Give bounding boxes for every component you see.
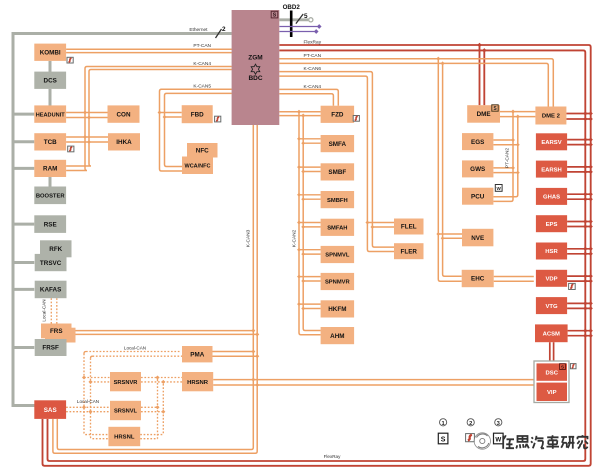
svg-text:SRSNVR: SRSNVR [114,380,138,386]
GWS [462,160,493,177]
icon book VDP [569,283,576,289]
wire gray stub FRSF [13,346,34,349]
svg-text:FLER: FLER [401,248,418,255]
icon W on PCU [495,185,502,192]
wire K-CAN6: ZGM right then down to FLEL FLER [279,72,394,248]
wire DME to DME2 [500,111,535,113]
FBD [182,105,213,123]
wire Local-CAN dashed SRSNVR right to HRSNR [141,378,163,384]
svg-text:KOMBI: KOMBI [40,49,61,56]
svg-text:S: S [273,13,277,19]
svg-text:NVE: NVE [471,235,484,242]
wire FlexRay stubs EPS [567,221,591,223]
svg-text:RAM: RAM [43,166,57,173]
svg-text:S: S [441,437,446,444]
svg-text:K-CAN5: K-CAN5 [193,83,211,89]
svg-text:2: 2 [222,26,226,33]
wire K-CAN2 stubs SMFAH [299,222,321,224]
svg-text:TCB: TCB [44,139,57,146]
svg-text:FLEL: FLEL [401,224,417,231]
wire PMA to K-CAN3 [212,351,253,353]
wire K-CAN2 stubs SMBFH [299,194,321,196]
icon S on DME [492,105,498,112]
svg-text:RSE: RSE [44,221,57,228]
wire HRSNR to DSC/VIP [213,379,534,381]
wire FlexRay stubs EARSV [567,139,591,141]
svg-text:FlexRay: FlexRay [304,39,322,45]
RSE [34,215,66,233]
HEADUNIT [34,105,66,122]
wire gray stub HEADUNIT [13,113,34,116]
legend icon book [466,434,475,442]
SAS [34,400,66,419]
SMFA [321,135,355,152]
WCA/NFC [182,157,213,175]
svg-text:PT-CAN: PT-CAN [304,53,322,59]
svg-text:Ethernet: Ethernet [189,27,208,33]
ACSM [535,324,568,342]
wire FlexRay stubs GHAS [567,193,591,195]
svg-text:HKFM: HKFM [328,306,346,313]
AHM [321,327,355,344]
svg-text:EARSH: EARSH [541,167,562,173]
OBD2 black bar [290,11,293,38]
gray slash mark and 5 [296,14,303,24]
svg-text:FRSF: FRSF [42,345,59,352]
svg-text:GHAS: GHAS [543,195,560,201]
svg-text:VIP: VIP [547,390,557,396]
wire EHC to VDP [494,276,534,278]
DCS [34,72,66,89]
SPNMVL [321,246,355,263]
SPNMVR [321,273,355,290]
HKFM [321,300,355,317]
EHC [462,270,494,287]
VIP [537,383,568,401]
svg-text:VTG: VTG [545,304,558,310]
wire FlexRay stubs ACSM [568,330,591,332]
svg-text:HSR: HSR [545,249,558,255]
wire gray KOMBI-DCS [49,61,52,73]
wire Local-CAN dashed stubs SRSNVR left [84,377,110,379]
svg-text:AHM: AHM [330,333,344,340]
wire PT-CAN left: ZGM to KOMBI [66,48,232,50]
DSC [537,363,568,380]
FLER [394,243,424,259]
wire FlexRay stubs EARSH [567,166,591,168]
svg-text:DSC: DSC [546,370,559,376]
PMA [182,346,213,362]
wire PT-CAN2 verticals down to PCU [493,112,513,202]
EGS [462,133,493,150]
svg-text:2: 2 [469,421,472,427]
HSR [536,243,567,260]
icon book FZD [353,116,359,122]
wire Local-CAN dashed right verticals of SRS cluster [158,380,164,439]
CON [108,105,140,122]
svg-text:DCS: DCS [44,77,57,84]
EARSH [536,161,567,178]
legend circle 1 [440,419,447,427]
FLEL [394,219,424,235]
svg-text:SAS: SAS [44,407,57,414]
wire K-CAN4 right: ZGM to FZD top [279,89,338,105]
icon book FBD [215,116,221,122]
svg-text:K-CAN6: K-CAN6 [304,66,322,72]
wire K-CAN2 stubs SPNMVL [299,249,321,251]
wire Ethernet gray trunk: ZGM left to frame, down left side, into SAS [13,34,232,406]
icon S on ZGM [271,11,278,18]
wire gray stub TRSVC [13,261,34,264]
wire PT-CAN right: ZGM to DME2 top [279,59,553,107]
wire gray stub KAFAS [13,288,34,291]
svg-text:HEADUNIT: HEADUNIT [36,112,65,118]
wire PT-CAN branch down to NVE and EHC [438,59,461,282]
svg-text:ACSM: ACSM [543,332,560,338]
svg-text:BDC: BDC [248,75,262,82]
svg-text:EPS: EPS [546,222,558,228]
SMFAH [321,219,355,236]
svg-text:FBD: FBD [191,111,204,118]
wire TCB-IHKA pair [66,136,108,138]
VTG [536,297,567,314]
svg-text:FRS: FRS [50,328,63,335]
wire Local-CAN dashed verticals down to HRSNL [84,354,108,435]
wire Local-CAN dashed HRSNL right stubs [140,434,163,436]
Ethernet slash mark and 2 [216,29,222,38]
wire Local-CAN KAFAS to FRS dashed [50,298,52,323]
FZD [321,106,355,123]
wire gray stub TCB [13,140,34,143]
wire HEADUNIT-CON pair [66,112,107,114]
icon book TCB [68,146,74,152]
svg-text:DME 2: DME 2 [542,114,561,120]
KOMBI [34,44,66,61]
TRSVC [35,254,67,271]
RAM [34,160,66,177]
HRSNL [108,427,140,446]
HRSNR [182,372,213,391]
icon book DSC [570,364,576,369]
PCU [462,188,493,205]
icon S on DSC [560,364,566,370]
svg-text:5: 5 [304,13,308,20]
wire K-CAN3: ZGM bottom, down, along bottom, up into SAS [57,125,253,450]
svg-text:KAFAS: KAFAS [40,287,61,294]
SMBFH [321,191,355,208]
wire Local-CAN dashed SAS to SRSNVL [66,406,110,408]
svg-text:EARSV: EARSV [541,140,561,146]
wire FlexRay stubs DME2 [566,113,590,115]
wire PT-CAN2 stubs GWS [493,167,513,169]
FRS shadow box [45,328,76,343]
icon book KOMBI [67,57,73,63]
svg-text:RFK: RFK [49,246,62,253]
svg-text:SMBFH: SMBFH [327,198,348,204]
GHAS [536,188,567,205]
purple Ethernet line 1 with dot [279,26,317,28]
TCB [34,133,66,150]
svg-text:EHC: EHC [471,276,485,283]
wire K-CAN6 stubs FLEL [367,222,394,224]
svg-text:SPNMVL: SPNMVL [325,253,350,259]
svg-text:SMBF: SMBF [328,169,346,176]
svg-text:Local-CAN: Local-CAN [77,399,99,404]
wire PT-CAN2 stubs EGS [493,139,513,141]
watermark text Zuosi Auto Research (drawn strokes) [503,435,514,449]
purple Ethernet line 2 with dot [279,31,314,33]
SRSNVR [110,372,141,391]
wire gray RAM-BOOSTER [49,177,52,188]
wire K-CAN2 stubs SPNMVR [299,276,321,278]
watermark logo circle [474,433,490,449]
svg-text:W: W [495,437,501,444]
KAFAS [35,281,67,299]
wire gray stub RSE [13,223,34,226]
svg-text:TRSVC: TRSVC [40,260,62,267]
svg-text:FlexRay: FlexRay [324,454,342,459]
svg-text:K-CAN4: K-CAN4 [193,61,211,67]
svg-text:HRSNL: HRSNL [114,435,135,441]
VDP [536,270,567,287]
svg-text:K-CAN3: K-CAN3 [246,229,252,247]
EARSV [536,133,567,150]
svg-text:SRSNVL: SRSNVL [114,409,138,415]
wire gray DCS-HEADUNIT [49,89,52,107]
DME 2 [535,107,566,125]
svg-text:OBD2: OBD2 [283,4,301,11]
svg-text:EGS: EGS [471,139,484,146]
svg-text:FZD: FZD [331,112,344,119]
legend icon W [494,433,504,444]
legend circle 2 [467,419,474,427]
wire gray stub RAM [13,167,34,170]
svg-text:VDP: VDP [545,277,557,283]
legend circle 3 [495,419,502,427]
wire K-CAN2 verticals down to AHM [299,112,321,335]
DSC VIP combo frame [534,361,569,403]
wire K-CAN2 stubs HKFM [299,303,321,305]
DME [467,105,500,123]
wire PT-CAN stubs NVE [438,233,464,235]
wire FlexRay stubs VTG [567,302,591,304]
svg-text:WCA/NFC: WCA/NFC [185,163,211,169]
wire FRS to K-CAN3 [72,330,254,332]
FRS [41,324,72,339]
IHKA [108,133,140,150]
NFC [187,143,218,158]
wire FlexRay drop to DME [479,45,481,105]
svg-text:K-CAN4: K-CAN4 [304,84,322,90]
FRSF [35,339,67,356]
svg-text:PMA: PMA [190,351,204,358]
svg-text:S: S [561,365,564,370]
svg-text:GWS: GWS [470,166,485,173]
wire K-CAN4 left: ZGM left then down to RAM [66,67,232,171]
svg-text:PCU: PCU [471,193,485,200]
wire K-CAN2: ZGM right to FZD [279,111,320,113]
SRSNVL [110,401,141,420]
SMBF [321,163,355,180]
wire K-CAN2 stubs SMFA [299,138,321,140]
svg-text:Local-CAN: Local-CAN [42,299,47,321]
svg-text:SMFA: SMFA [329,141,347,148]
svg-text:SPNMVR: SPNMVR [325,280,351,286]
svg-text:W: W [497,186,502,191]
NVE [462,229,493,247]
svg-text:IHKA: IHKA [116,139,132,146]
wire FlexRay stubs VDP [567,275,591,277]
wire FlexRay ACSM-DSC [549,342,551,363]
svg-text:NFC: NFC [196,147,209,154]
svg-text:HRSNR: HRSNR [187,380,209,386]
EPS [536,215,567,232]
svg-text:CON: CON [117,111,131,118]
RFK [40,240,72,257]
svg-text:Local-CAN: Local-CAN [124,345,146,350]
wire K-CAN2 stubs SMBF [299,166,321,168]
wire FlexRay stubs HSR [567,248,591,250]
svg-text:SMFAH: SMFAH [327,226,347,232]
svg-text:PT-CAN: PT-CAN [193,43,211,49]
wire Local-CAN dashed: corner to PMA [86,352,182,357]
svg-text:K-CAN2: K-CAN2 [291,229,297,247]
wire K-CAN5 stubs FBD [160,112,182,114]
svg-text:ZGM: ZGM [248,54,262,61]
wire K-CAN5: ZGM left then down to WCA/NFC [160,89,232,171]
legend icon S [438,433,448,444]
svg-text:PT-CAN2: PT-CAN2 [505,148,511,169]
svg-text:BOOSTER: BOOSTER [36,194,65,200]
wire gray ZGM right Ethernet to terminal ring [279,18,308,21]
wire Local-CAN dashed SRSNVL right stubs [141,406,158,408]
svg-text:DME: DME [477,111,491,118]
gateway ZGM BDC [232,10,280,125]
BOOSTER [34,187,66,205]
